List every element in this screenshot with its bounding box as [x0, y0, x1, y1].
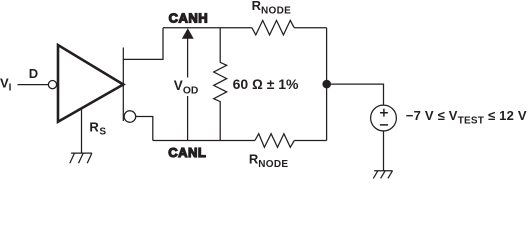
resistor RNODE bottom: [255, 134, 294, 148]
svg-text:D: D: [29, 66, 38, 81]
svg-text:RNODE: RNODE: [249, 151, 289, 170]
driver input bubble: [48, 81, 56, 89]
svg-text:RNODE: RNODE: [252, 0, 292, 17]
wire input VI to bubble: [18, 84, 49, 86]
resistor RNODE top: [252, 20, 294, 35]
label CANL: [168, 145, 206, 160]
junction node dot: [322, 80, 331, 89]
wire CANH rail: [163, 27, 252, 29]
wire right rail: [326, 28, 328, 141]
svg-text:CANL: CANL: [168, 145, 206, 160]
svg-text:VI: VI: [0, 75, 12, 93]
wire RNODE bottom to right rail: [294, 140, 326, 142]
svg-text:CANH: CANH: [169, 11, 209, 26]
source VTEST (+/- circle): [371, 105, 397, 131]
label VTEST range: [406, 108, 527, 127]
driver output bar: [122, 48, 124, 122]
label VI: [0, 75, 12, 93]
wire node to source: [327, 84, 384, 105]
ground (driver RS pin): [70, 153, 92, 163]
label CANH: [169, 11, 209, 26]
wire CANL rail: [153, 140, 255, 142]
resistor 60 ohm (vertical): [214, 28, 227, 141]
wire CANL branch (bubble to rail): [136, 117, 153, 141]
ground (VTEST source): [373, 171, 392, 179]
label RS: [89, 120, 106, 138]
wire RS (triangle to ground): [81, 109, 83, 154]
svg-text:RS: RS: [89, 120, 106, 138]
driver U1 triangle: [58, 45, 123, 122]
svg-text:60 Ω ± 1%: 60 Ω ± 1%: [233, 76, 299, 92]
label RNODE bottom: [249, 151, 289, 170]
label 60 ohm: [233, 76, 299, 92]
label D: [29, 66, 38, 81]
driver output bubble (CANL): [124, 111, 136, 123]
label RNODE top: [252, 0, 292, 17]
wire CANH branch (bar to rail): [123, 28, 163, 60]
label VOD: [173, 78, 203, 97]
wire RNODE top to right rail: [294, 27, 326, 29]
svg-text:−7 V ≤ VTEST ≤ 12 V: −7 V ≤ VTEST ≤ 12 V: [406, 108, 527, 127]
arrow VOD: [182, 28, 194, 140]
wire source to ground: [383, 131, 385, 171]
